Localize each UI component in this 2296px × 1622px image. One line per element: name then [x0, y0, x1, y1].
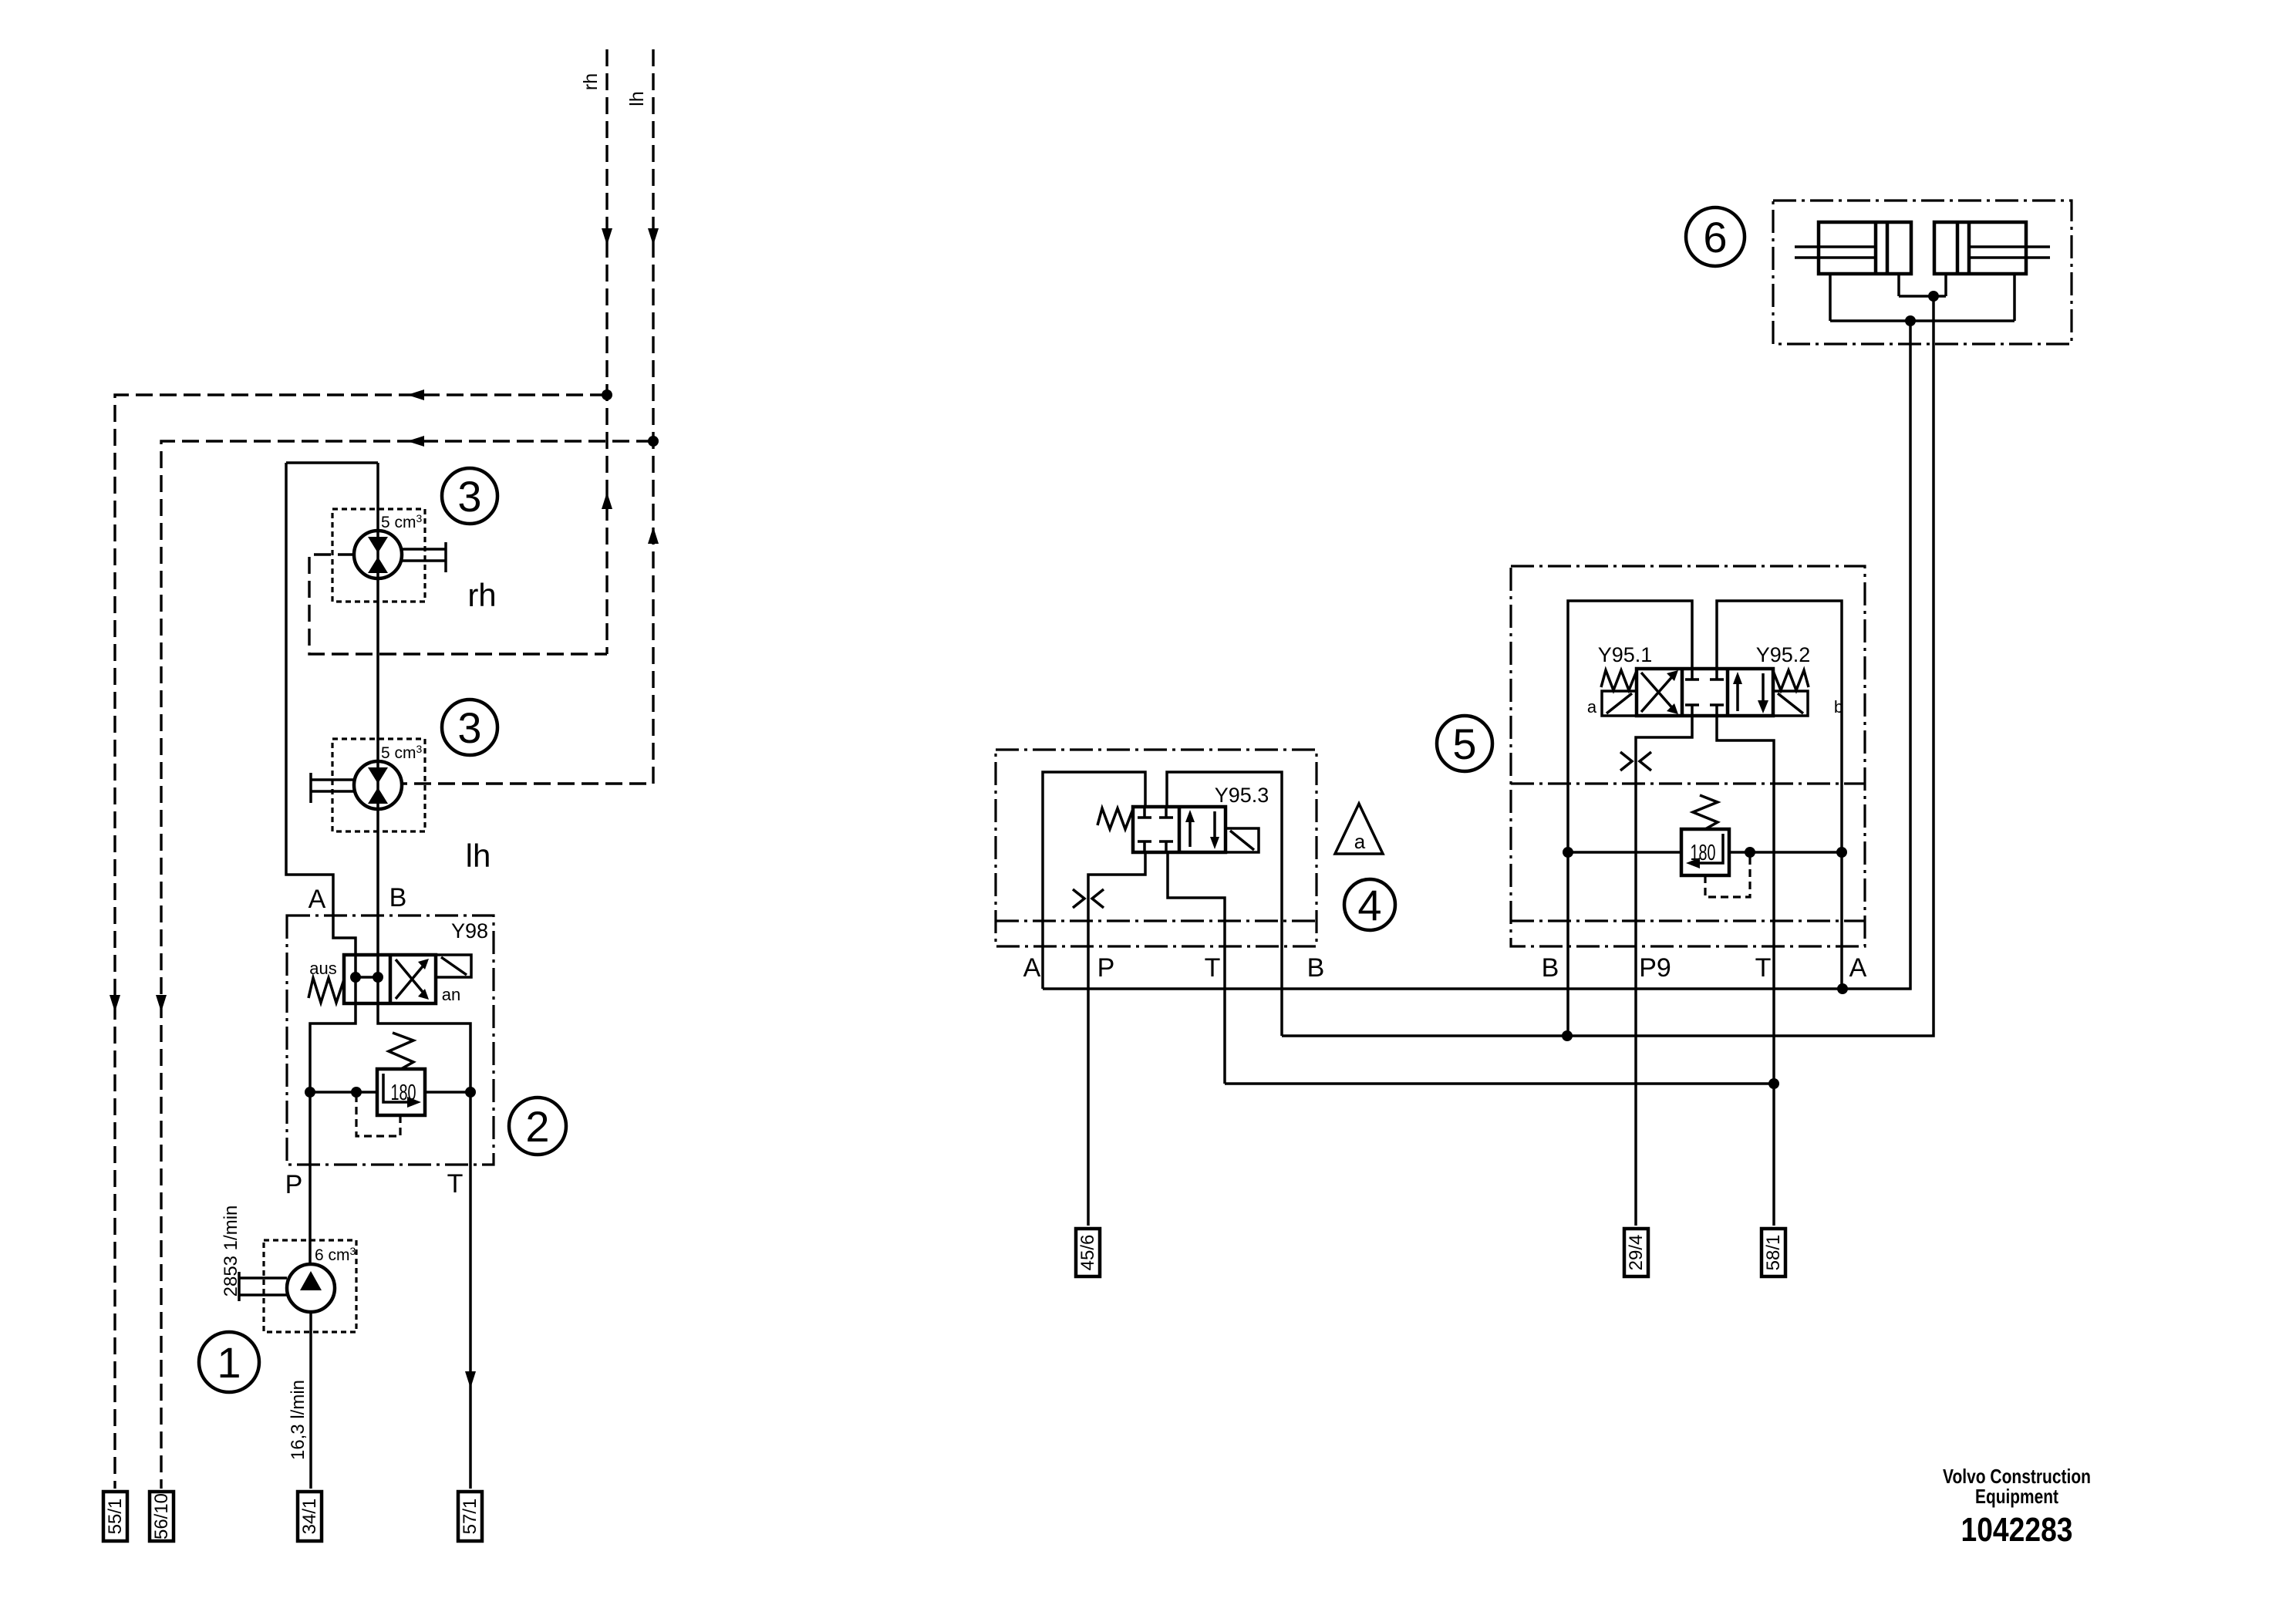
- svg-text:Y95.2: Y95.2: [1756, 643, 1811, 666]
- svg-text:a: a: [1587, 697, 1597, 717]
- motor 3 rh case dashed box: [332, 509, 425, 602]
- wire piston-side manifold: [1830, 319, 2014, 322]
- junction B / relief (block 5): [1563, 847, 1573, 858]
- svg-text:2853 1/min: 2853 1/min: [221, 1206, 241, 1297]
- valve block 5 upper interface dash-dot line: [1511, 782, 1865, 784]
- relief valve 180 pilot dashed line: [356, 1095, 400, 1136]
- wire valve bottom to T (block 5): [1717, 716, 1774, 1226]
- junction P / relief: [305, 1087, 315, 1098]
- svg-text:45/6: 45/6: [1077, 1235, 1098, 1271]
- valve centre position blocked ports: [1685, 669, 1724, 716]
- wire cylinder ports plumbing: [1830, 274, 2014, 321]
- svg-text:Y95.1: Y95.1: [1598, 643, 1653, 666]
- wire top jog A-B: [286, 461, 378, 464]
- svg-text:29/4: 29/4: [1626, 1235, 1647, 1271]
- valve Y98 body: [344, 955, 436, 1003]
- relief valve 180 internals (block 5): [1694, 834, 1723, 863]
- motor 3 lh circle: [354, 761, 402, 809]
- marker triangle a: [1335, 804, 1383, 854]
- orifice on P line (block 4): [1073, 889, 1104, 908]
- connector 58/1: [1762, 1229, 1785, 1276]
- wire B bus (y=1343): [1282, 296, 1934, 1036]
- svg-text:A: A: [308, 885, 326, 914]
- cylinder right rod: [1969, 247, 2050, 258]
- svg-text:rh: rh: [580, 73, 602, 90]
- relief valve 180 box: [377, 1069, 425, 1115]
- svg-text:P: P: [285, 1170, 303, 1199]
- junction block5 A / A bus: [1837, 983, 1848, 994]
- svg-text:A: A: [1849, 953, 1867, 983]
- junction block5 T / T bus: [1768, 1078, 1779, 1089]
- wire lh pilot vertical dashed line: [401, 49, 653, 784]
- relief valve 180 spring (block 5): [1693, 795, 1718, 829]
- relief valve 180 pilot dashed (block 5): [1705, 855, 1750, 897]
- callout circle 3 (lh motor): [442, 700, 497, 755]
- svg-text:T: T: [1755, 953, 1772, 983]
- svg-text:B: B: [389, 883, 407, 912]
- connector 57/1: [458, 1492, 482, 1541]
- wire T bus (y=1405): [1225, 1082, 1774, 1085]
- cylinder right piston: [1957, 222, 1969, 274]
- valve right position arrows: [1738, 673, 1763, 711]
- cylinder right body: [1934, 222, 2026, 274]
- svg-text:A: A: [1023, 953, 1041, 983]
- svg-text:1042283: 1042283: [1961, 1511, 2073, 1549]
- solenoid a of Y95.1: [1602, 691, 1637, 716]
- svg-text:T: T: [1205, 953, 1221, 983]
- motor 3 rh circle: [354, 531, 402, 578]
- junction rh line / dashed line 1: [602, 389, 612, 400]
- svg-text:180: 180: [391, 1081, 416, 1105]
- svg-text:180: 180: [1691, 841, 1716, 865]
- svg-text:5 cm3: 5 cm3: [381, 512, 423, 531]
- junction T / relief: [465, 1087, 476, 1098]
- relief valve 180 box (block 5): [1681, 829, 1729, 875]
- relief valve 180 (block 2) line: [310, 1091, 470, 1094]
- wire A port line (block 5): [1840, 852, 1843, 989]
- wire horizontal dashed line 1 (to 55/1): [115, 395, 607, 1489]
- motor 3 lh triangles: [368, 767, 388, 804]
- valve block 5 lower interface dash-dot line: [1511, 919, 1865, 922]
- pump 1 circle: [287, 1264, 335, 1312]
- spring of Y95.2: [1773, 670, 1809, 690]
- svg-text:P9: P9: [1639, 953, 1671, 983]
- cylinder left rod: [1795, 247, 1876, 258]
- wire B main line through motors: [376, 463, 379, 955]
- motor 3 rh shaft: [402, 542, 446, 572]
- svg-text:5: 5: [1452, 720, 1476, 768]
- pump 1 triangle: [300, 1271, 322, 1290]
- callout circle 4: [1344, 879, 1395, 930]
- svg-text:4: 4: [1357, 881, 1381, 929]
- svg-text:2: 2: [525, 1102, 549, 1151]
- wire arrow down on T line: [465, 1371, 476, 1388]
- wire lh arrow down: [648, 228, 659, 245]
- motor 3 rh drain dashed line: [309, 555, 607, 654]
- wire Y95.3 bottom to T port: [1168, 852, 1225, 1084]
- svg-text:a: a: [1354, 830, 1366, 853]
- connector 34/1: [298, 1492, 322, 1541]
- callout circle 1: [199, 1332, 259, 1392]
- wire P line pump to 34/1: [309, 1312, 312, 1489]
- valve Y98 left position connector with junction dots: [356, 976, 378, 979]
- svg-text:rh: rh: [467, 577, 496, 613]
- svg-text:an: an: [442, 985, 460, 1004]
- wire rod-side manifold: [1899, 295, 1946, 298]
- svg-text:6: 6: [1703, 213, 1727, 261]
- valve Y98 internal A/B pass lines: [356, 955, 378, 1003]
- wire block 4 inner frame A side: [1043, 772, 1145, 989]
- wire arrow down on 56/10 line: [156, 995, 167, 1012]
- svg-text:6 cm3: 6 cm3: [315, 1245, 356, 1264]
- valve block 5 dash-dot enclosure: [1511, 566, 1865, 946]
- svg-text:56/10: 56/10: [151, 1493, 172, 1539]
- svg-text:55/1: 55/1: [105, 1499, 126, 1535]
- relief valve 180 spring: [389, 1033, 413, 1069]
- junction A / relief (block 5): [1836, 847, 1847, 858]
- svg-text:T: T: [447, 1169, 464, 1199]
- valve block 4 interface dash-dot line: [996, 919, 1317, 922]
- junction piston-side manifold: [1905, 315, 1916, 326]
- wire block 4 inner frame B side: [1167, 772, 1282, 1036]
- valve Y95.3 body: [1133, 807, 1226, 852]
- svg-text:aus: aus: [309, 959, 336, 978]
- svg-text:B: B: [1542, 953, 1559, 983]
- svg-text:B: B: [1307, 953, 1325, 983]
- cylinder left piston: [1876, 222, 1887, 274]
- wire A main line with jogs to valve Y98: [286, 463, 356, 955]
- svg-text:Equipment: Equipment: [1975, 1485, 2058, 1508]
- junction block5 B / B bus: [1562, 1030, 1573, 1041]
- junction rod-side manifold: [1928, 291, 1939, 302]
- svg-text:b: b: [1834, 697, 1843, 717]
- valve block 4 dash-dot enclosure: [996, 750, 1317, 946]
- svg-text:58/1: 58/1: [1763, 1235, 1784, 1271]
- wire P line valve to pump: [308, 1092, 312, 1264]
- svg-text:34/1: 34/1: [299, 1499, 320, 1535]
- motor 3 lh case dashed box: [332, 739, 425, 831]
- wire rh pilot vertical dashed line: [605, 49, 608, 654]
- wire T line to 57/1: [469, 1092, 472, 1489]
- svg-text:3: 3: [457, 472, 481, 521]
- wire rh arrow down: [602, 228, 612, 245]
- relief valve 180 internals: [383, 1074, 413, 1102]
- motor 3 lh shaft: [311, 773, 355, 803]
- callout circle 5: [1437, 716, 1492, 771]
- svg-text:lh: lh: [466, 838, 491, 874]
- valve Y95.3 right position arrows: [1190, 811, 1215, 847]
- valve left position crossed arrows: [1641, 673, 1675, 712]
- wire valve bottom to P9: [1636, 716, 1692, 1226]
- svg-text:Y95.3: Y95.3: [1215, 784, 1269, 807]
- wire arrow left on line 1: [407, 389, 424, 400]
- wire B port line (block 5): [1566, 852, 1569, 1036]
- svg-text:16,3 l/min: 16,3 l/min: [288, 1380, 308, 1460]
- solenoid of Y98: [436, 955, 471, 977]
- connector 55/1: [103, 1492, 127, 1541]
- wire arrow down on 55/1 line: [110, 995, 120, 1012]
- junction pilot / relief (block 5): [1745, 847, 1755, 858]
- svg-text:57/1: 57/1: [460, 1499, 480, 1535]
- wire rh arrow up: [602, 492, 612, 509]
- svg-text:Y98: Y98: [451, 919, 488, 943]
- wire block 5 inner frame A side: [1717, 601, 1842, 852]
- cylinder block 6 dash-dot enclosure: [1773, 201, 2072, 344]
- junction lh line / dashed line 2: [648, 436, 659, 447]
- svg-text:5 cm3: 5 cm3: [381, 743, 423, 762]
- callout circle 6: [1686, 207, 1745, 266]
- solenoid b of Y95.2: [1773, 691, 1808, 716]
- spring of Y95.1: [1601, 670, 1637, 690]
- spring of Y95.3: [1097, 808, 1133, 829]
- callout circle 3 (rh motor): [442, 468, 497, 524]
- svg-text:lh: lh: [626, 91, 648, 106]
- wire Y98 B-port to T gallery: [378, 1003, 470, 1092]
- orifice on P9 line (block 5): [1620, 752, 1651, 771]
- pump 1 dashed box: [264, 1240, 356, 1332]
- motor 3 rh triangles: [368, 537, 388, 573]
- connector 29/4: [1624, 1229, 1648, 1276]
- wire Y98 A-port to P gallery: [310, 1003, 356, 1092]
- connector 56/10: [150, 1492, 174, 1541]
- wire lh arrow up: [648, 527, 659, 544]
- wire block 5 inner frame B side: [1568, 601, 1692, 852]
- junction pilot / relief: [351, 1087, 362, 1098]
- pump 1 shaft: [239, 1272, 287, 1301]
- wire A bus (y=1282): [1043, 321, 1910, 989]
- wire horizontal dashed line 2 (to 56/10): [161, 441, 653, 1489]
- valve Y98 right position crossed arrows: [396, 959, 426, 999]
- callout circle 2: [509, 1098, 566, 1155]
- svg-text:P: P: [1097, 953, 1115, 983]
- valve block 2 dash-dot enclosure: [287, 916, 494, 1165]
- cylinder left body: [1819, 222, 1911, 274]
- svg-text:3: 3: [457, 703, 481, 752]
- wire arrow left on line 2: [407, 436, 424, 447]
- wire Y95.3 bottom to P port: [1088, 852, 1145, 1226]
- svg-text:1: 1: [217, 1338, 241, 1387]
- connector 45/6: [1076, 1229, 1100, 1276]
- solenoid of Y95.3: [1226, 828, 1259, 852]
- valve Y95.3 left position blocked ports: [1138, 807, 1173, 852]
- relief valve 180 (block 5) line: [1568, 851, 1842, 854]
- valve Y95.1/Y95.2 body: [1637, 669, 1773, 716]
- spring of Y98: [308, 978, 344, 1003]
